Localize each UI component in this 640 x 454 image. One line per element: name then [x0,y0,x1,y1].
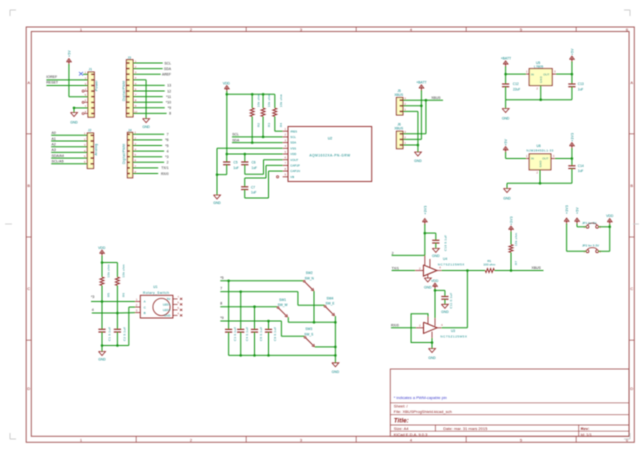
wire TX/1 to U4 input [392,270,424,272]
wire C3 column [228,281,230,330]
wire RESET to J1.3 [46,85,88,87]
svg-text:C14: C14 [578,164,584,168]
ground below C10 [432,248,440,257]
wire U1.C to ground rail [102,307,140,345]
label 8 [169,112,171,116]
regulator U5 L7805 [526,61,556,91]
svg-text:Rotary_Switch: Rotary_Switch [143,291,169,295]
no-connect x on J1 pin 1 [79,72,88,76]
junction 4/R6 [116,312,119,315]
junction SW3 rail [334,346,337,349]
wire U5.OUT to +5V [552,73,572,75]
label 2 net [392,251,394,255]
svg-text:A0: A0 [52,131,56,135]
wire C1 bottom [101,332,103,346]
capacitor C5 1uF [223,161,239,170]
svg-text:+BATT: +BATT [416,81,426,85]
svg-text:1uF: 1uF [578,87,584,91]
svg-text:CAP1N: CAP1N [290,169,300,173]
svg-text:A3: A3 [52,148,56,152]
capacitor C10 0.1uF [432,235,447,251]
label SCL/A5 [52,160,64,164]
svg-text:D: D [630,386,633,391]
connector J1 Power [85,68,99,118]
svg-text:Power: Power [95,80,99,91]
wire to C11 [435,290,445,296]
resistor R1 100 ohm [483,259,495,273]
svg-text:VOUT: VOUT [290,158,298,162]
svg-text:GND: GND [164,314,172,318]
rotary switch U1 [136,285,182,318]
ground below rotary [98,352,106,362]
svg-text:*11: *11 [166,95,171,99]
wire pullup top rail [227,93,275,95]
svg-text:4: 4 [167,149,169,153]
wire J4.7 to label TX/1 [133,167,159,169]
svg-text:100 ohm: 100 ohm [483,263,495,267]
svg-text:GND: GND [98,358,106,362]
svg-text:XBUS: XBUS [532,266,542,270]
wire gnd rail to C5 [217,174,227,176]
wire XBUS out [511,270,544,272]
ground below U5 [502,109,510,121]
junction rail C9 [267,354,270,357]
wire net 2 to U4 OE [392,254,425,256]
wire C11 to ground [444,299,446,304]
svg-text:SW2: SW2 [306,271,313,275]
wire +5V to U6.IN [506,152,530,159]
svg-text:U6: U6 [537,144,541,148]
label A2 [52,143,56,147]
capacitor C14 1uF [568,159,584,184]
buffer U3 NC7SZ125M5X [419,322,467,338]
svg-text:C2 0.1uF: C2 0.1uF [123,327,127,341]
junction VDD/JP1.2 [608,226,611,229]
wire R3 to SCL [262,117,264,137]
junction VDD rail/top rail [226,93,229,96]
LCD module U2 AQM1602XA-PN-GRW [283,127,372,182]
wire U6 gnd rail [507,170,572,184]
wire +5V to J1.5 [69,64,88,97]
wire +BATT rail [403,90,422,139]
svg-text:SCL: SCL [232,133,239,137]
capacitor C13 1uF [568,74,584,100]
svg-text:B: B [630,183,633,188]
svg-text:/RES: /RES [290,129,297,133]
svg-text:RX/0: RX/0 [391,323,399,327]
capacitor C12 22uF [502,74,520,100]
power +3V3 at U4 [422,205,427,224]
wire to ground U2 [216,175,218,195]
label XBUS at J5 [431,96,441,100]
svg-text:SDA: SDA [232,138,240,142]
junction *9/C9 [267,320,270,323]
label SDA [164,67,172,71]
wire SW4 out [334,316,336,363]
junction VDD/C6 [244,153,247,156]
svg-text:SDA: SDA [290,141,296,145]
label A1 [52,137,56,141]
svg-text:Title:: Title: [394,418,409,425]
svg-text:GND: GND [539,160,543,167]
wire C3 bottom [228,332,230,355]
wire C7 bottom to CAP1N [245,171,283,198]
svg-text:GND: GND [441,310,449,314]
wire U3 OE loop [411,314,432,343]
wire VDD rail rotary [101,256,103,278]
svg-text:+3V3: +3V3 [423,205,427,214]
svg-text:C: C [27,286,30,291]
switch SW2 SW_N [303,271,314,291]
svg-text:VDD: VDD [223,82,231,86]
svg-text:Rev:: Rev: [581,426,590,431]
svg-text:R7: R7 [514,261,518,265]
label RX/0 at J4 [161,172,169,176]
svg-text:2: 2 [392,251,394,255]
wire SW2 out [313,291,315,322]
junction SW rail [334,321,337,324]
U3 gnd stub [431,332,433,338]
wire J3.4 to ground [133,80,146,119]
junction at J1.7 [73,107,76,110]
svg-text:10k ohm: 10k ohm [257,94,261,108]
svg-text:+3V3: +3V3 [565,205,569,214]
junction C2 gnd [116,344,119,347]
label *3 at J4 [165,155,168,159]
wire J4.8 to label RX/0 [133,173,159,175]
label 7 at switches [220,287,222,291]
resistor R6 10k [115,264,125,297]
power VDD above U2 [223,82,231,92]
junction rail C8 [253,354,256,357]
svg-text:+5V: +5V [504,138,508,145]
jumper JP1 for 5V [582,221,598,228]
wire +5V arrow to rail [571,62,573,75]
wire XBUS net J5.3 [403,99,443,101]
title block frame [390,369,629,436]
label 2 at J4 [167,161,169,165]
wire R2 top [251,94,253,108]
svg-text:*9: *9 [220,316,223,320]
junction +BATT J5.2 [420,105,423,108]
connector J4 Digital/PWM [122,128,136,177]
label XBUS at R1 [532,266,542,270]
regulator U6 NJM2845DL1-33 [526,144,555,174]
wire VDD rail down to U2.VDD [226,91,228,154]
junction *5/C3 [227,280,230,283]
svg-text:U2: U2 [328,137,333,141]
svg-text:GND: GND [539,76,543,83]
svg-text:C9 0.1uF: C9 0.1uF [273,327,277,341]
svg-text:XBUS: XBUS [431,96,441,100]
svg-text:C6: C6 [252,161,256,165]
junction 8/C8 [253,305,256,308]
capacitor C3 0.1uF [225,327,237,341]
junction U5 gnd [539,98,542,101]
wire J4.2 to label *6 [133,139,163,141]
junction XBUS column [425,99,428,102]
svg-text:R3: R3 [267,123,271,127]
connector J5 XBUS [394,89,406,115]
connector J3 Digital/PWM [122,56,137,117]
svg-text:SW4: SW4 [327,296,334,300]
wire +3V3 rail U4 [424,224,426,255]
wire C8 column [254,307,256,330]
resistor R7 10k [509,232,518,265]
label SDA/A4 [52,154,65,158]
junction top rail R3 [262,93,265,96]
svg-text:+3V3: +3V3 [570,133,574,142]
svg-text:GND: GND [142,125,150,129]
svg-text:SW1: SW1 [279,298,286,302]
label 13 [167,84,171,88]
ground below U2 rail [213,195,221,205]
svg-text:GND: GND [213,201,221,205]
wire C9 column [268,321,270,329]
junction 7/C4 [239,290,242,293]
wire +BATT to U5.IN [506,66,530,74]
junction +3V3/C10 [424,232,427,235]
wire SDA to U2.3 [232,142,283,144]
label RX/0 [391,323,399,327]
wire U2.VSS to gnd rail [217,148,283,174]
wire R7 to XBUS node [510,253,512,271]
svg-text:RX/0: RX/0 [161,172,169,176]
junction +BATT/C12 [504,73,507,76]
wire R4 to /RES [275,117,283,132]
label *5 at switches [220,276,223,280]
wire J4.3 to label *5 [133,145,163,147]
connector J2 Analog [84,129,98,169]
svg-text:C12: C12 [513,82,519,86]
svg-text:+BATT: +BATT [501,57,511,61]
note: * indicates a PWM-capable pin [394,395,447,400]
label A0 [52,131,56,135]
svg-text:SW_S: SW_S [304,333,313,337]
svg-text:GND: GND [70,121,78,125]
svg-text:1uF: 1uF [251,191,257,195]
svg-text:Digital/PWM: Digital/PWM [122,144,126,164]
svg-text:SCL: SCL [164,61,171,65]
svg-text:10k ohm: 10k ohm [279,94,283,108]
junction VSS rail [216,173,219,176]
junction OUT/C14 [571,157,574,160]
wire J3.7 to label *11 [133,96,163,98]
wire C6 top [244,154,246,162]
svg-text:NC7SZ125M5X: NC7SZ125M5X [440,335,467,339]
svg-text:VB: VB [290,175,294,179]
svg-text:VDD: VDD [431,279,439,283]
svg-text:2: 2 [167,161,169,165]
wire *3 to U1.A [91,301,140,303]
wire J4.6 to label 2 [133,161,164,163]
wire *9 row [220,320,281,322]
resistor R5 10k [100,264,110,297]
junction XBUS node [510,269,513,272]
svg-text:R5: R5 [106,293,110,297]
power +3V3 at jumpers [564,205,569,224]
svg-text:GND: GND [502,117,510,121]
label *5 at J4 [165,144,168,148]
svg-text:7: 7 [220,287,222,291]
svg-text:1uF: 1uF [233,166,239,170]
wire C10 to ground [435,243,437,248]
label SCL at U2 [232,133,239,137]
svg-text:R4: R4 [279,123,283,127]
svg-text:A1: A1 [52,137,56,141]
svg-text:TX/1: TX/1 [161,166,168,170]
svg-text:GND: GND [503,196,511,200]
svg-text:Sheet: /: Sheet: / [394,404,409,409]
junction top rail R2 [251,93,254,96]
pin numbers JP1 [583,225,601,229]
svg-text:8: 8 [220,302,222,306]
svg-text:Digital/PWM: Digital/PWM [122,81,126,101]
svg-text:J1: J1 [89,68,93,72]
label SCL [164,61,171,65]
wire A2 to J2.3 [51,146,87,148]
junction SW2 out [313,321,316,324]
svg-text:R2: R2 [257,123,261,127]
ground below J3 [142,119,150,129]
capacitor C4 0.1uF [237,327,249,341]
label RESET [46,81,59,85]
label TX/1 at J4 [161,166,168,170]
svg-text:RESET: RESET [46,81,59,85]
wire A0 to J2.1 [51,134,87,136]
junction VDD/C5 [226,153,229,156]
label 8 at switches [220,302,222,306]
buffer U4 NC7SZ125M5X [419,257,465,276]
label *11 [166,95,171,99]
label 7 at J4 [167,133,169,137]
power VDD at U3 [431,279,439,289]
wire VDD to JP1.2/JP2.2 [599,224,610,251]
svg-text:VDD: VDD [606,214,614,218]
svg-text:*9: *9 [168,106,171,110]
unconnected stub J1 pin 4 [82,90,88,92]
svg-text:SW_E: SW_E [325,302,334,306]
wire down to ground J6 [417,145,419,152]
wire C5 top [226,154,228,162]
ground below U3 [428,349,436,360]
wire *9 to SW3 [281,321,304,336]
wire J3.6 to label 12 [133,90,165,92]
svg-text:10k ohm: 10k ohm [122,264,126,278]
wire *5 row [220,280,303,282]
wire SCL/A5 to J2.6 [51,163,87,165]
svg-text:IOREF: IOREF [46,75,57,79]
svg-text:AREF: AREF [162,73,171,77]
wire +3V3 to R7 [510,232,512,245]
svg-text:Date: mar. 31 mars 2015: Date: mar. 31 mars 2015 [443,426,488,431]
wire down to ground U6 [506,183,508,188]
wire XBUS to J6.3 [403,100,426,134]
wire to C10 [425,233,436,240]
ground below J1 [70,113,78,125]
svg-text:C11 0.1uF: C11 0.1uF [449,292,453,308]
svg-text:C: C [630,286,633,291]
label 4 at J4 [167,149,169,153]
svg-text:D: D [27,386,30,391]
svg-text:L7805: L7805 [534,65,543,69]
unconnected stub J1 pin 8 [82,113,88,115]
wire SW3 out [315,346,336,348]
wire +3V3 arrow to rail [571,148,573,159]
svg-text:+5V: +5V [67,50,71,57]
svg-text:*5: *5 [165,144,168,148]
U4 gnd stub [427,274,429,278]
wire SCL to U2.2 [232,136,283,138]
label *6 at J4 [165,138,168,142]
wire +5V to JP1.1 [577,224,586,227]
svg-text:GND: GND [414,159,422,163]
svg-text:LED1: LED1 [163,303,171,307]
svg-text:A: A [144,300,146,304]
power +3V3 at R7 [509,216,514,232]
wire U6.OUT to +3V3 [551,158,572,160]
wire branch to R6 [102,263,117,278]
wire 7 row [220,291,298,293]
wire J3.8 to label *10 [133,101,163,103]
label A3 [52,148,56,152]
wire J3.1 to label SCL [133,62,163,64]
svg-text:*5: *5 [220,276,223,280]
ground below J6 [414,152,422,163]
wire C1 column [101,302,103,330]
svg-text:VDD: VDD [290,152,296,156]
svg-text:JP2 for 3.3V: JP2 for 3.3V [582,244,600,248]
svg-text:XBUS: XBUS [394,93,403,97]
wire U3 out to node [437,271,467,328]
wire R1 to XBUS node [494,270,511,272]
wire J5.1/J6.1 to ground [403,111,418,145]
label IOREF [46,75,57,79]
svg-text:C1 0.1uF: C1 0.1uF [107,327,111,341]
svg-text:*3: *3 [165,155,168,159]
wire R5 to net *3 row [101,286,103,302]
svg-text:C8 0.1uF: C8 0.1uF [259,327,263,341]
wire switch cap gnd rail [229,354,336,356]
svg-text:IN: IN [531,72,534,76]
junction VDD branch [101,261,104,264]
wire J3.10 to label 8 [133,112,167,114]
junction gnd J6.1 [417,144,420,147]
capacitor C2 0.1uF [114,313,127,346]
label AREF [162,73,171,77]
resistor R2 10k [250,94,260,127]
svg-text:J4: J4 [128,128,132,132]
svg-text:12: 12 [167,89,171,93]
svg-text:10k ohm: 10k ohm [267,94,271,108]
wire U2.VDD row [227,153,283,155]
wire down to ground U5 [505,100,507,109]
unconnected VB pin circle [277,176,279,178]
junction C1 gnd [101,344,104,347]
junction OUT/C13 [571,73,574,76]
title block text [394,404,593,437]
svg-text:CAP1P: CAP1P [290,164,300,168]
wire IOREF to J1.2 [46,79,88,81]
svg-text:5V: 5V [167,297,171,301]
svg-text:GND: GND [428,356,436,360]
wire C9 bottom [268,332,270,355]
svg-text:R6: R6 [122,293,126,297]
svg-text:GND: GND [332,370,340,374]
junction U4 out node [466,269,469,272]
label *3 [91,295,94,299]
svg-text:LED2: LED2 [163,308,171,312]
